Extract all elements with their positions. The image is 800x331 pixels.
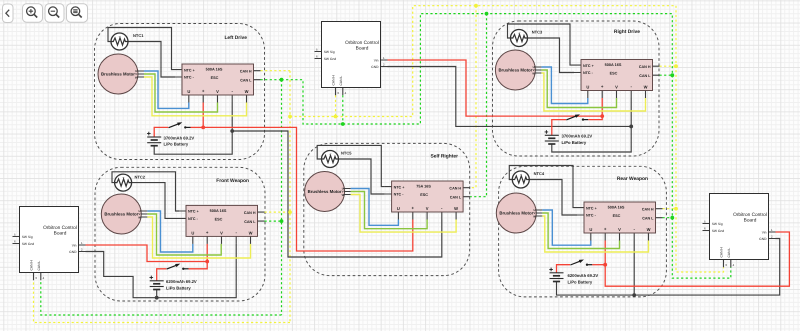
wire: NTC5 left terminal loop to Self Righter ESC NTC+ [317,145,384,186]
node: Front Weapon ground junction [155,296,159,300]
wire: Rear Weapon ground net to bottom-right board GND [634,239,780,296]
control board A2 Orbitron Control Board (bottom-left) [13,207,86,281]
module frame: Right Drive [493,21,660,156]
ESC U4 Rear Weapon 500A 16S [577,202,663,241]
svg-text:Front Weapon: Front Weapon [216,178,249,184]
wire CAN H: yellow trunk vertical x=291 (Left ESC / Front ESC / bottom-left board) [289,71,291,323]
ESC U1 Left Drive 500A 16S [175,64,261,103]
svg-text:NTC5: NTC5 [341,151,352,156]
wire: NTC5 right terminal to Self Righter ESC NTC- [339,159,385,194]
wire CAN L: bottom green bus to bottom-left board CAN L [41,280,282,315]
wire CAN H: Front Weapon ESC CAN H stub to yellow trunk [265,211,291,213]
thermistor NTC5 [322,151,353,168]
wire: Right Drive battery negative to Right ESC minus pin [552,98,631,152]
wire: NTC1 left terminal loop to Left ESC NTC+ [108,28,175,70]
wire: Front motor V to Front ESC V (green) [147,214,221,255]
battery BT2 Right Drive LiPo [545,130,593,145]
wire: Right Drive switch to plus node [588,116,602,120]
wire: Front ESC plus pin down through plus node to switch [189,244,208,269]
wire: Left motor W to Left ESC W (yellow) [144,77,247,116]
wire CAN L: Right Drive ESC CAN L stub to green trunk [660,74,673,76]
wire: Left motor V to Left ESC V (green) [144,74,218,112]
wire CAN L: top bus down to Self Righter ESC CAN L [470,14,486,197]
ESC U5 Self Righter 75A 16S [385,181,471,220]
wire CAN L: Left Drive ESC CAN L stub to green trunk [261,79,282,81]
node: CAN H junction top board stub [334,115,338,119]
wire: Right motor U to Right ESC U (blue) [541,67,587,104]
motor M2 Front Weapon brushless motor [101,194,147,234]
wire: Left Drive battery negative to Left ESC minus pin [154,103,232,155]
wire: Rear Weapon switch to plus node [592,264,605,266]
node: CAN H junction at yellow trunk x291 [288,115,292,119]
wire: bottom-left board Vin to Front Weapon plus node [86,245,208,262]
svg-text:500A 16S: 500A 16S [608,206,625,210]
svg-text:NTC1: NTC1 [133,33,144,38]
node: CAN H junction Front ESC [288,210,292,214]
wire: NTC2 right terminal to Front ESC NTC- [131,183,179,219]
node: Right Drive ground junction [629,125,633,129]
wire: Self motor U to Self ESC U (blue) [351,189,399,226]
wire CAN L: Front Weapon ESC CAN L stub to green trunk [265,220,282,222]
svg-text:3700mAh 69.2V: 3700mAh 69.2V [164,135,195,140]
wire CAN H: bottom yellow bus to bottom-left board CAN H [34,280,291,322]
wire: Front motor W to Front ESC W (yellow) [147,217,250,258]
switch S4 Rear Weapon [570,260,592,266]
svg-text:LiPo Battery: LiPo Battery [562,140,587,145]
svg-text:LiPo Battery: LiPo Battery [164,142,189,147]
wire: Rear motor V to Rear ESC V (green) [542,213,619,249]
svg-text:LiPo Battery: LiPo Battery [166,285,191,290]
wire: Right motor W to Right ESC W (yellow) [541,73,645,111]
wire: Rear motor W to Rear ESC W (yellow) [542,216,648,252]
wire: Self motor W to Self ESC W (yellow) [351,195,457,233]
wire: Left motor U to Left ESC U (blue) [144,71,189,108]
node: CAN L junction Rear ESC [670,216,674,220]
motor M1 Left Drive brushless motor [98,54,144,94]
node: CAN H junction Right ESC [674,64,678,68]
battery BT1 Left Drive LiPo [147,132,194,147]
svg-text:Right Drive: Right Drive [614,29,640,35]
module frame: Left Drive [95,24,265,160]
motor M3 Right Drive brushless motor [495,50,541,90]
node: CAN H junction Rear ESC [674,207,678,211]
control board A3 Orbitron Control Board (bottom-right) [703,194,776,268]
svg-text:6200mAh 69.2V: 6200mAh 69.2V [166,279,197,284]
toolbar back button [3,4,14,23]
svg-text:Left Drive: Left Drive [224,35,247,41]
wire: Left Drive switch to plus node [191,126,204,128]
ESC U2 Front Weapon 500A 16S [179,205,265,244]
wire CAN H: top control board stub down to yellow branch [335,95,337,116]
wire: Left Drive battery positive up to switch [154,127,168,137]
toolbar zoom-out button [45,4,64,22]
wire: NTC4 left terminal loop to Rear ESC NTC+ [509,166,577,208]
node: CAN L junction Front ESC [280,219,284,223]
wire: NTC4 right terminal to Rear ESC NTC- [529,180,577,216]
wire: Right ESC plus pin down to plus node [601,98,603,116]
svg-text:NTC4: NTC4 [534,171,545,176]
node: Left Drive plus junction [201,126,205,130]
wire: Right motor V to Right ESC V (green) [541,70,616,108]
svg-text:500A 16S: 500A 16S [210,209,227,213]
svg-text:Self Righter: Self Righter [431,154,459,160]
svg-text:500A 16S: 500A 16S [605,63,622,67]
wire CAN H: Right Drive ESC CAN H stub to yellow trunk [660,65,677,67]
node: CAN L junction top bus / Self branch [485,12,489,16]
svg-text:LiPo Battery: LiPo Battery [568,279,593,284]
control board A1 Orbitron Control Board (top) [315,22,388,96]
module frame: Front Weapon [95,167,265,301]
node: Front Weapon plus junction [205,260,209,264]
node: CAN L junction Left ESC [280,78,284,82]
battery BT3 Front Weapon LiPo [150,276,197,291]
wire: Right Drive battery positive up to switch [552,120,566,136]
node: CAN L junction Right ESC [670,73,674,77]
svg-text:6200mAh 69.2V: 6200mAh 69.2V [568,273,599,278]
wire: Rear Weapon battery positive up to switch [557,265,571,273]
node: Left Drive ground junction [230,129,234,133]
thermistor NTC2 [115,174,146,191]
wire: Rear ESC plus pin down to bottom-right board Vin [605,232,789,286]
wire CAN H: top bus down to Self Righter ESC CAN H [470,6,476,188]
node: Right Drive plus junction [600,114,604,118]
wire: NTC3 left terminal loop to Right ESC NTC+ [508,24,575,65]
thermistor NTC3 [511,30,544,47]
wire CAN L: top control board stub down to green branch [342,95,344,124]
switch S1 Left Drive [169,122,191,128]
motor M5 Self Righter brushless motor [305,172,351,212]
wire CAN L: green branch over the top (to top bus to bottom-right board) [282,14,731,279]
wire: Self motor V to Self ESC V (green) [351,192,428,229]
wire: Rear Weapon battery negative to Rear ESC minus pin [557,241,635,296]
wire CAN H: Rear Weapon ESC CAN H stub to yellow trunk [663,208,677,210]
node: Rear Weapon ground junction [632,293,636,297]
node: CAN L junction top board stub [341,122,345,126]
svg-text:NTC2: NTC2 [135,174,146,179]
wire: Front motor U to Front ESC U (blue) [147,211,193,252]
wire: Front Weapon battery negative to Front ESC minus pin [157,244,237,298]
svg-text:500A 16S: 500A 16S [206,68,223,72]
switch S2 Front Weapon [167,264,189,270]
wire: Rear motor U to Rear ESC U (blue) [542,210,591,245]
thermistor NTC4 [512,171,545,188]
svg-text:NTC3: NTC3 [532,30,543,35]
module frame: Rear Weapon [499,166,667,297]
wire: Left Drive plus node to Self Righter ESC plus pin [203,127,413,251]
wire CAN H: yellow branch over the top (x291 to top bus to bottom-right board) [290,6,724,272]
wire: bottom-left board GND to Front Weapon ground net [86,252,157,298]
wire: NTC2 left terminal loop to Front ESC NTC+ [112,172,179,211]
toolbar zoom-in button [23,4,43,22]
wire CAN L: Rear Weapon ESC CAN L stub to green trunk [663,217,673,219]
wire: NTC1 right terminal to Left ESC NTC- [128,42,175,78]
wire CAN H: Left Drive ESC CAN H stub to yellow trunk [261,70,291,72]
switch S3 Right Drive [566,114,588,120]
wire: Left ESC plus pin down to plus node [202,103,204,128]
wire CAN L: green trunk vertical x=281.5 (Left ESC / Front ESC / bottom-left board) [281,80,283,315]
svg-text:3700mAh 69.2V: 3700mAh 69.2V [562,134,593,139]
toolbar zoom-reset button [67,4,88,22]
wire: top control board GND to Right Drive ground net [388,67,632,127]
wire: Left Drive ground branch to Self Righter ESC minus pin [232,131,442,257]
thermistor NTC1 [111,33,144,50]
wire: top control board Vin to Right Drive plus node [388,60,603,116]
svg-text:Rear Weapon: Rear Weapon [617,176,648,182]
module frame: Self Righter [304,143,470,275]
motor M4 Rear Weapon brushless motor [496,193,542,233]
ESC U3 Right Drive 500A 16S [574,60,660,99]
wire: Front Weapon battery positive up to switch [157,269,167,281]
battery BT4 Rear Weapon LiPo [549,268,598,285]
svg-text:75A 16S: 75A 16S [416,185,431,189]
wire: NTC3 right terminal to Right ESC NTC- [528,38,575,73]
node: CAN H junction top bus / Self branch [474,4,478,8]
node: Rear Weapon plus junction [603,263,607,267]
